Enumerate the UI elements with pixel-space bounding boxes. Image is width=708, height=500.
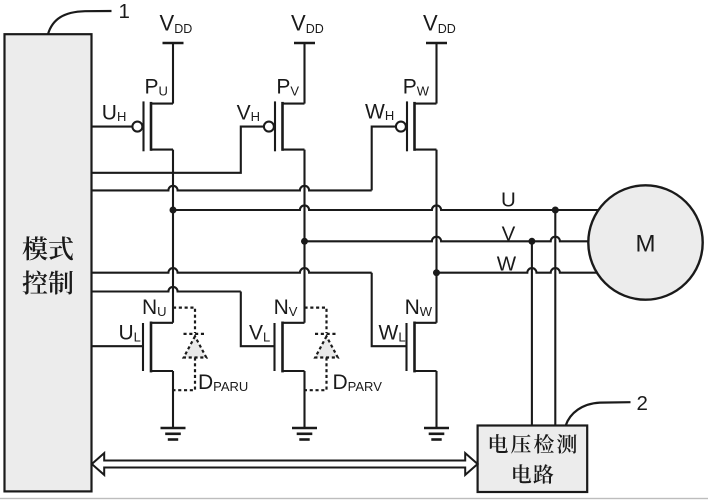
wire WH gate (block to PW gate, hops over U and V columns) bbox=[92, 186, 372, 191]
leader line for reference numeral 2 bbox=[566, 402, 631, 425]
leader line for reference numeral 1 bbox=[48, 11, 112, 34]
wire UH gate (block to PU gate) bbox=[92, 126, 133, 128]
wire phase U line (hops over V,W columns; junction dots) bbox=[173, 205, 599, 210]
transistor PV (PMOS high-side) bbox=[264, 43, 305, 151]
label 电压检测 (voltage detection) bbox=[490, 434, 577, 454]
parasitic diode DPARV (dashed body diode) bbox=[305, 308, 339, 391]
scan artifact line at page bottom bbox=[0, 498, 708, 499]
wire V column vertical (PV drain to NV drain) bbox=[303, 150, 305, 323]
transistor NW (NMOS low-side) bbox=[407, 322, 437, 429]
wire phase V line (hops over W column and U tap) bbox=[305, 237, 589, 242]
node V junction at column V bbox=[301, 238, 308, 245]
VDD supply symbol for column V bbox=[294, 42, 315, 45]
wire VL gate (block along y=291.5, down at x=240.8, to NV gate) bbox=[92, 287, 241, 292]
svg-text:W: W bbox=[497, 252, 517, 275]
svg-text:1: 1 bbox=[119, 0, 130, 23]
VDD supply symbol for column U bbox=[163, 42, 184, 45]
bidirectional arrow between mode control and voltage detection bbox=[92, 453, 478, 475]
motor M bbox=[588, 185, 702, 299]
VDD supply symbol for column W bbox=[426, 42, 447, 45]
label 电路 (circuit) bbox=[513, 464, 553, 484]
label 控制 (control) bbox=[23, 270, 73, 294]
ground symbol GND U bbox=[161, 428, 186, 440]
mode control block U1 (模式控制) bbox=[5, 34, 92, 491]
parasitic diode DPARU (dashed body diode) bbox=[173, 308, 207, 391]
wire VH gate (block to PV gate) bbox=[92, 127, 264, 173]
wire WL gate (block along y=272.7, down at x=371.7, to NW gate) bbox=[92, 268, 372, 273]
wire U sense tap down to voltage detection bbox=[554, 210, 556, 426]
label 模式 (mode) bbox=[23, 236, 73, 260]
svg-text:2: 2 bbox=[637, 392, 648, 415]
voltage detection block (电压检测电路) bbox=[478, 426, 588, 493]
node U junction at column U bbox=[170, 207, 177, 214]
wire W column vertical (PW drain to NW drain) bbox=[435, 150, 437, 323]
svg-text:M: M bbox=[636, 231, 656, 258]
svg-text:U: U bbox=[501, 188, 516, 211]
wire UL gate (block to NU gate) bbox=[92, 345, 144, 347]
transistor NV (NMOS low-side) bbox=[275, 322, 305, 429]
svg-text:V: V bbox=[502, 223, 516, 246]
wire V sense tap down to voltage detection bbox=[531, 241, 533, 425]
ground symbol GND V bbox=[292, 428, 317, 440]
transistor PU (PMOS high-side) bbox=[132, 43, 173, 151]
node U sense tap junction bbox=[552, 207, 559, 214]
transistor NU (NMOS low-side) bbox=[143, 322, 173, 429]
node W junction at column W bbox=[433, 269, 440, 276]
ground symbol GND W bbox=[424, 428, 449, 440]
wire U column vertical (PU drain to NU drain) bbox=[172, 150, 174, 323]
node V sense tap junction bbox=[528, 238, 535, 245]
wire phase W line (hops over V,U taps) bbox=[437, 268, 598, 273]
transistor PW (PMOS high-side) bbox=[396, 43, 437, 151]
